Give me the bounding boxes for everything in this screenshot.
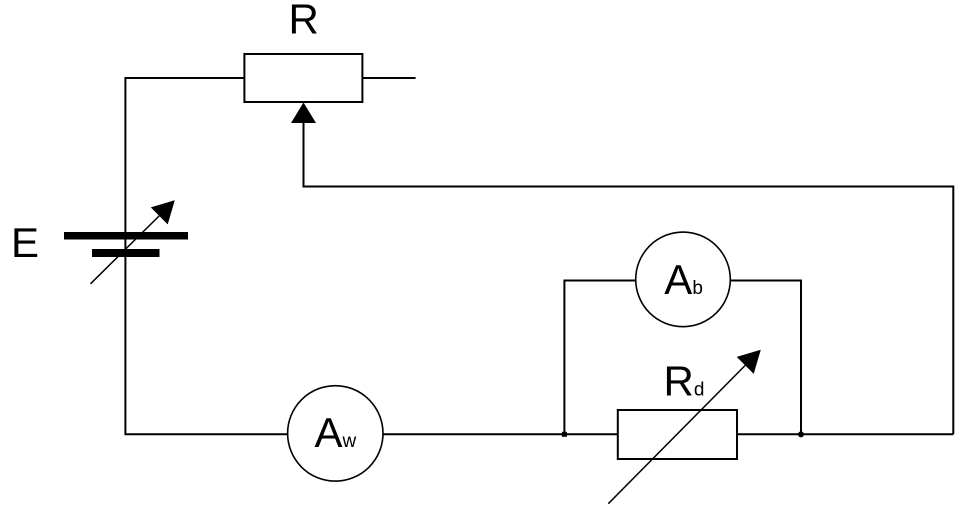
ammeter Aw circle — [288, 386, 383, 481]
ammeter Ab circle — [636, 232, 731, 327]
wiper arrowhead on R — [291, 103, 316, 124]
node junction square (left) — [562, 432, 567, 437]
wire: wiper lead from R down and right to the right vertical rail — [304, 120, 954, 434]
resistor R (rheostat body) — [244, 54, 362, 102]
resistor Rd body — [618, 410, 737, 459]
wire: parallel branch left leg up to Ab — [564, 281, 635, 435]
node junction dot (right) — [798, 431, 804, 437]
wire: parallel branch right leg from Ab down — [730, 281, 801, 435]
Rd variability arrow line — [608, 365, 745, 503]
svg-text:R: R — [289, 0, 319, 43]
battery variability arrow line — [91, 216, 160, 284]
battery E plate short — [92, 249, 160, 257]
wire: right terminal stub of R (open end) — [362, 77, 415, 79]
battery E plate long — [64, 232, 188, 240]
wire: bottom rail from Aw right side to bottom-right corner — [383, 433, 953, 435]
battery variability arrowhead — [151, 200, 175, 224]
wire: top-left loop from R left terminal down to bottom rail — [125, 78, 287, 434]
svg-text:E: E — [11, 219, 39, 266]
Rd variability arrowhead — [737, 350, 761, 374]
